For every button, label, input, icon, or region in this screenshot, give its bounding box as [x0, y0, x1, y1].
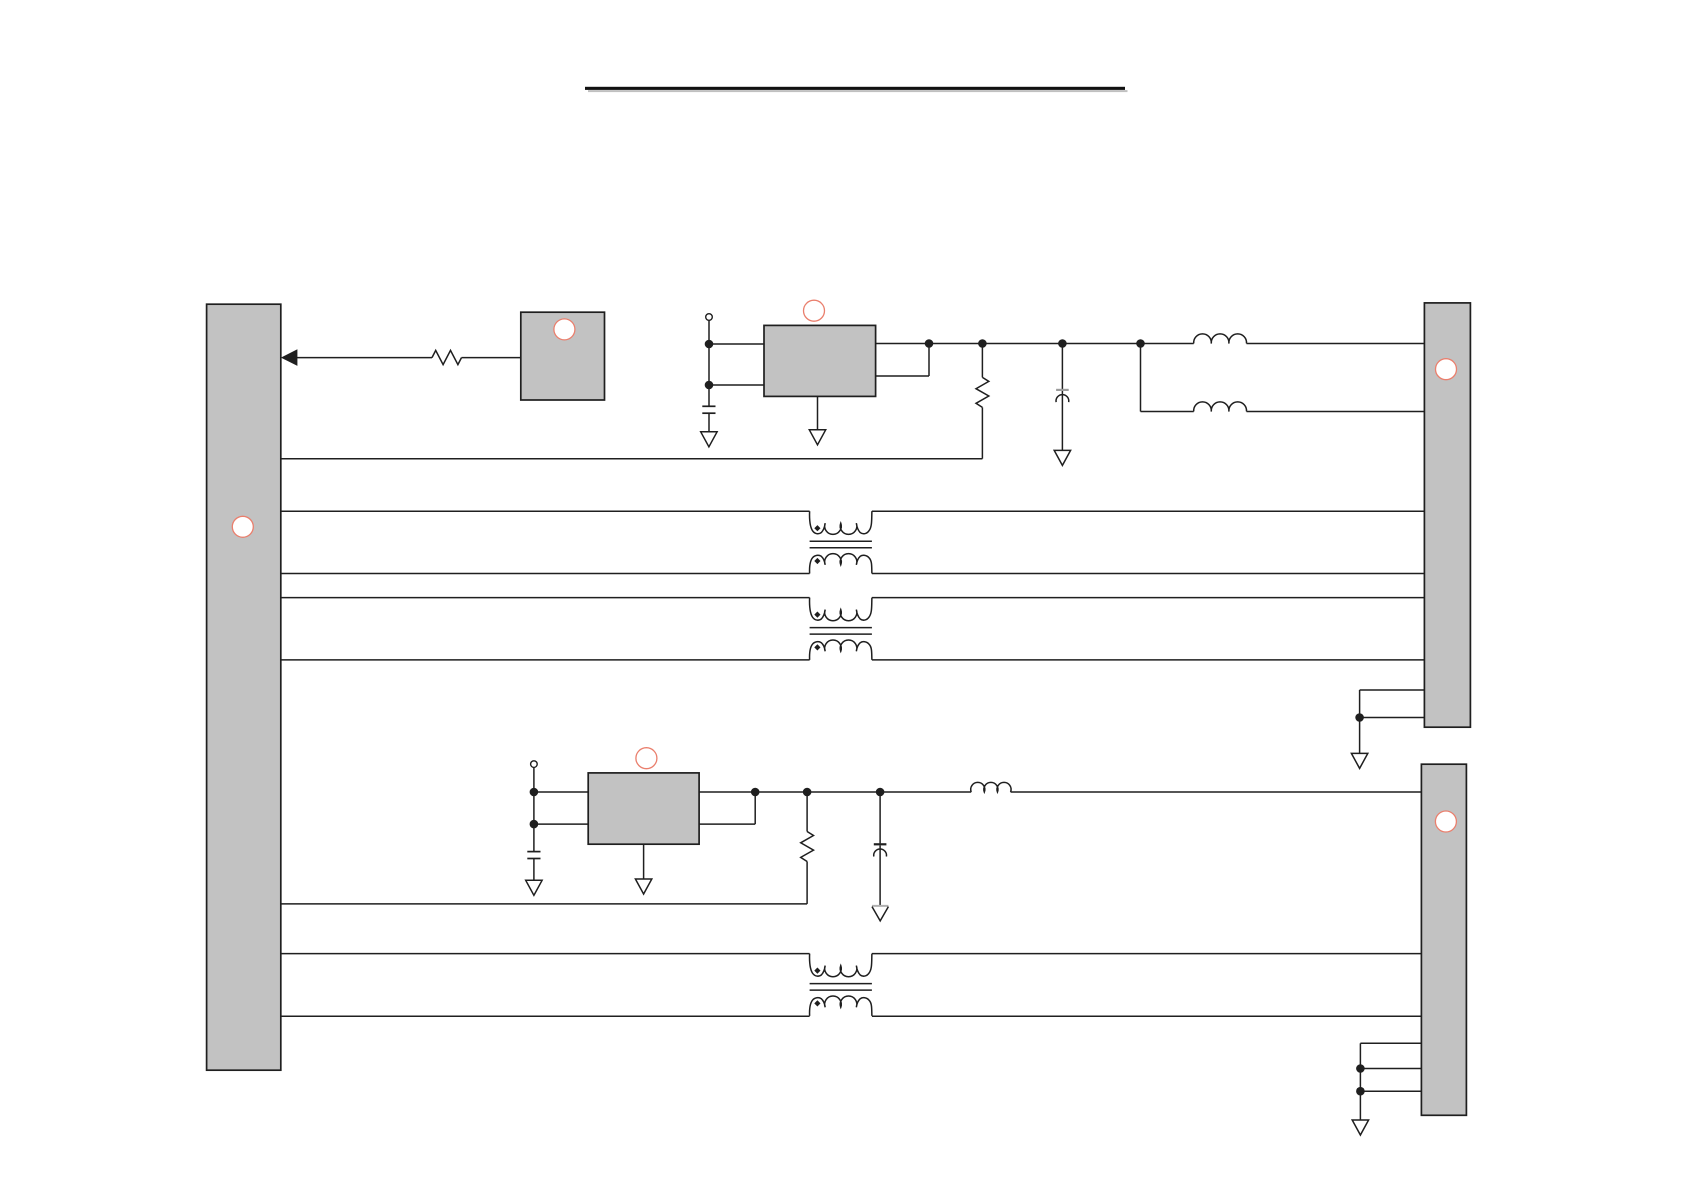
wire return rail to J1 [281, 458, 983, 460]
junction at C4 top [876, 788, 885, 797]
ground below C3 [526, 880, 542, 895]
ground below C2 [1054, 450, 1070, 465]
wire T3 primary to J3 [872, 953, 1422, 955]
resistor R3 (load, vertical) [801, 832, 814, 862]
ground at J3 [1352, 1120, 1368, 1135]
resistor R1 (series, horizontal) [432, 350, 462, 364]
callout balloon on U3 [554, 319, 575, 340]
wire J3 stub lower [1360, 1090, 1421, 1092]
pin P2 (open terminal) [531, 761, 538, 768]
wire C4 bottom stem [879, 846, 881, 906]
junction sense/output lower [751, 788, 760, 797]
wire R2 top stem [981, 344, 983, 378]
wire J2 stub lower [1360, 717, 1425, 719]
wire T2 primary to J2 [872, 597, 1425, 599]
ground below C4 (gray bar) [872, 906, 888, 921]
wire P1 down to C1 [708, 320, 710, 406]
wire U2 sense stub [699, 792, 755, 824]
ground below U2 [635, 879, 651, 894]
wire U2 ground stem [643, 844, 645, 880]
wire T2 secondary to J2 [872, 659, 1425, 661]
wire R3 bottom to return rail [806, 862, 808, 904]
junction J2 ground stub [1355, 713, 1364, 722]
junction on P1 net lower [705, 381, 714, 390]
wire U1 sense stub [876, 344, 929, 377]
wire T1 secondary to J2 [872, 573, 1425, 575]
wire C2 top stem [1061, 344, 1063, 390]
title rule [585, 87, 1125, 90]
wire J1 to T1 secondary [281, 573, 810, 575]
capacitor C4 (polarized bulk) [874, 844, 887, 856]
wire branch down to L2 [1141, 344, 1194, 412]
wire J1 to T2 primary [281, 597, 810, 599]
wire J2 stub upper [1360, 690, 1425, 754]
callout balloon on U2 [636, 748, 657, 769]
ground below U1 [809, 430, 825, 445]
wire T1 primary to J2 [872, 510, 1425, 512]
wire T3 secondary to J3 [872, 1015, 1422, 1017]
wire J1 to T1 primary [281, 510, 810, 512]
connector J3 (right lower) [1421, 764, 1466, 1115]
wire C4 top stem [879, 792, 881, 843]
wire P2 to U2 pin1 [534, 791, 588, 793]
wire return rail lower to J1 [281, 903, 807, 905]
wire C3 to ground [533, 859, 535, 881]
wire J3 stub upper [1360, 1043, 1421, 1120]
title rule shadow [588, 90, 1128, 92]
ground at J2 [1351, 753, 1367, 768]
wire P1 to U1 pin1 [709, 343, 764, 345]
transformer T3 (isolation pair C) [810, 954, 872, 1016]
junction at L branch [1136, 339, 1145, 348]
callout balloon on U1 [804, 300, 825, 321]
inductor L3 (output feed) [971, 782, 1011, 792]
capacitor C2 (polarized bulk) [1056, 390, 1069, 402]
wire R2 bottom to return rail [981, 407, 983, 458]
capacitor C1 (input bypass) [702, 406, 715, 413]
wire U3 to R1 [462, 357, 521, 359]
wire P2 to U2 pin2 [534, 823, 588, 825]
callout balloon on J2 [1436, 359, 1457, 380]
regulator U2 [588, 773, 699, 844]
regulator U1 [764, 325, 876, 396]
wire J1 to T3 secondary [281, 1015, 810, 1017]
junction at C2 top [1058, 339, 1067, 348]
arrowhead into J1 [281, 349, 298, 366]
wire C1 to ground [708, 414, 710, 433]
callout balloon on J1 [232, 516, 253, 537]
callout balloon on J3 [1435, 811, 1456, 832]
transformer T2 (isolation pair B) [810, 598, 872, 660]
wire J1 to T3 primary [281, 953, 810, 955]
wire C2 bottom stem [1061, 391, 1063, 451]
wire U1 ground stem [817, 396, 819, 430]
connector J1 (left edge card connector) [207, 304, 281, 1070]
junction J3 stub lower [1356, 1087, 1365, 1096]
capacitor C3 (input bypass) [527, 852, 540, 859]
junction on P2 net upper [530, 788, 539, 797]
inductor L2 (bottom feed) [1194, 402, 1247, 412]
junction on P1 net upper [705, 340, 714, 349]
connector J2 (right upper) [1424, 303, 1470, 727]
wire P1 to U1 pin2 [709, 384, 764, 386]
wire R1 to arrow [296, 357, 432, 359]
wire J1 to T2 secondary [281, 659, 810, 661]
junction at R3 top [803, 788, 812, 797]
ground below C1 [701, 432, 717, 447]
inductor L1 (top feed) [1194, 334, 1247, 344]
wire U2 output rail [699, 791, 971, 793]
junction sense/output [925, 339, 934, 348]
wire L1 to J2 [1247, 343, 1425, 345]
transformer T1 (isolation pair A) [810, 511, 872, 573]
pin P1 (open terminal) [706, 314, 713, 321]
block U3 (clock source) [521, 312, 605, 400]
junction at R2 top [978, 339, 987, 348]
wire J3 stub middle [1360, 1068, 1421, 1070]
wire U1 output rail [876, 343, 1194, 345]
wire P2 down to C3 [533, 767, 535, 851]
wire L3 to J3 [1011, 791, 1422, 793]
wire R3 top stem [806, 792, 808, 832]
junction on P2 net lower [530, 820, 539, 829]
junction J3 stub middle [1356, 1064, 1365, 1073]
resistor R2 (load, vertical) [976, 377, 989, 407]
wire L2 to J2 [1247, 411, 1425, 413]
